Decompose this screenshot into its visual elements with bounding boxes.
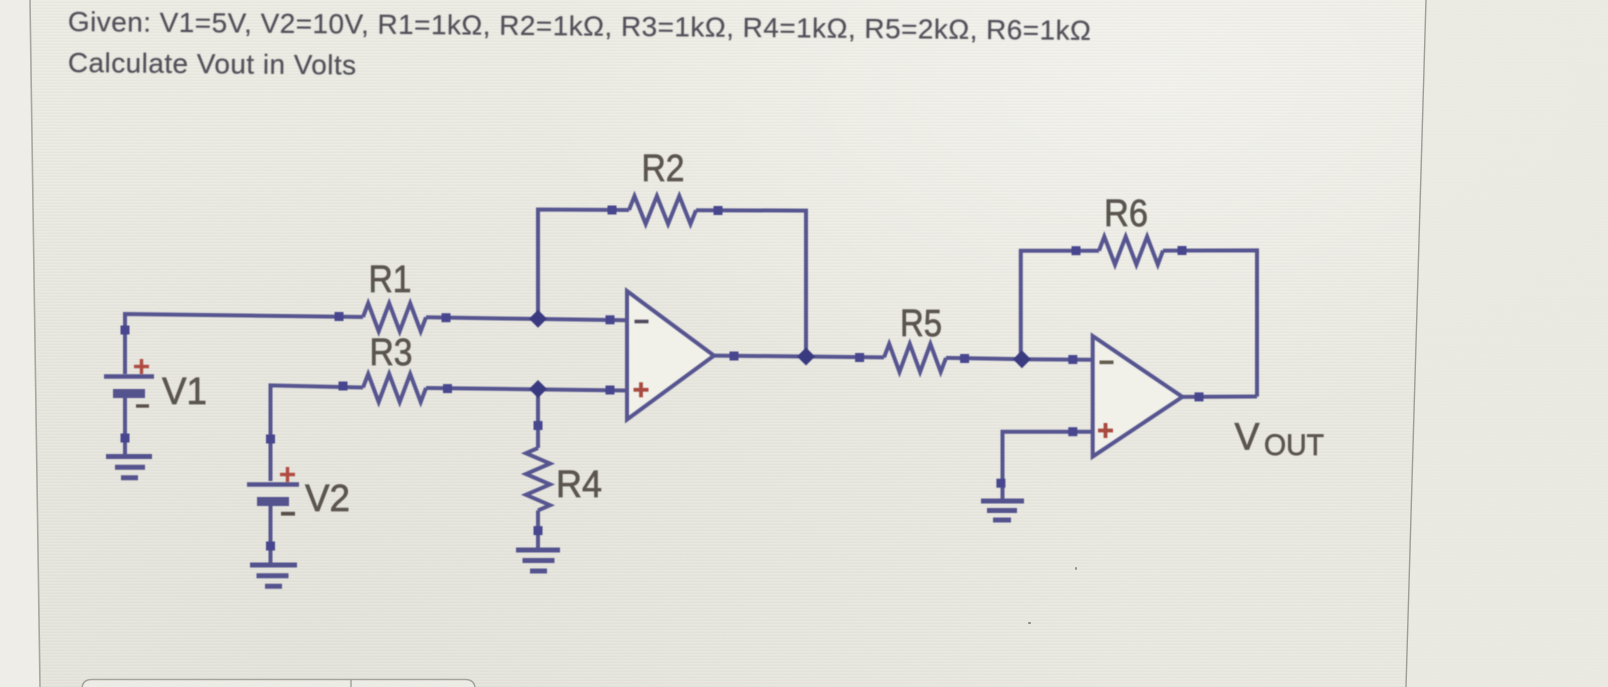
node (non-inverting input U1 / R4) [529,380,547,398]
pin pads [121,206,1204,551]
node (U1 output) [797,348,815,366]
wire [123,397,127,455]
wire [1003,432,1093,500]
battery V1 [104,377,154,394]
plus (U2 pin) [1098,423,1113,438]
wire [946,358,1022,359]
svg-text:V2: V2 [305,478,350,520]
dust speck [1075,567,1077,570]
wire [1182,395,1257,399]
resistor R6 [1099,237,1163,265]
wire [806,355,884,360]
bottom answer box [82,680,475,687]
wire [536,510,540,550]
svg-text:R6: R6 [1104,193,1148,235]
minus (U1 pin) [635,320,649,324]
wire [1163,250,1257,396]
node (inverting input U1) [529,310,547,328]
svg-text:R5: R5 [900,303,942,345]
wire [271,385,364,481]
ground (R4) [516,550,560,571]
svg-text:V: V [1235,416,1261,458]
wire [426,317,627,320]
plus (V1 polarity) [134,359,149,374]
ground (V2) [250,565,297,586]
wire [1021,251,1099,360]
op-amp U1 [627,291,714,420]
wire [714,354,806,359]
wire [125,314,363,374]
battery V2 [247,485,299,502]
minus (U2 pin) [1100,360,1114,364]
wire [1022,357,1093,362]
svg-text:R3: R3 [370,332,413,374]
plus (V2 polarity) [280,467,295,482]
svg-text:V1: V1 [162,371,207,413]
node (inverting input U2) [1013,350,1031,368]
svg-text:OUT: OUT [1264,429,1324,462]
dust speck [1028,622,1031,624]
resistor R1 [363,303,426,331]
ground (V1) [106,457,152,478]
resistor R3 [363,374,426,402]
svg-text:R4: R4 [556,464,602,506]
resistor R4 [526,448,550,510]
svg-text:R2: R2 [642,148,685,190]
right card edge [1406,0,1608,687]
resistor R5 [884,344,946,372]
resistor R2 [629,196,696,224]
minus (V1 polarity) [136,404,149,407]
wire [538,210,629,319]
op-amp U2 [1093,336,1183,457]
svg-text:R1: R1 [369,259,412,301]
wire [696,210,806,356]
ground (U2 +) [981,501,1024,520]
wire [269,503,273,564]
minus (V2 polarity) [281,512,295,516]
wire [426,388,627,391]
wire [536,389,540,448]
plus (U1 pin) [634,382,649,397]
